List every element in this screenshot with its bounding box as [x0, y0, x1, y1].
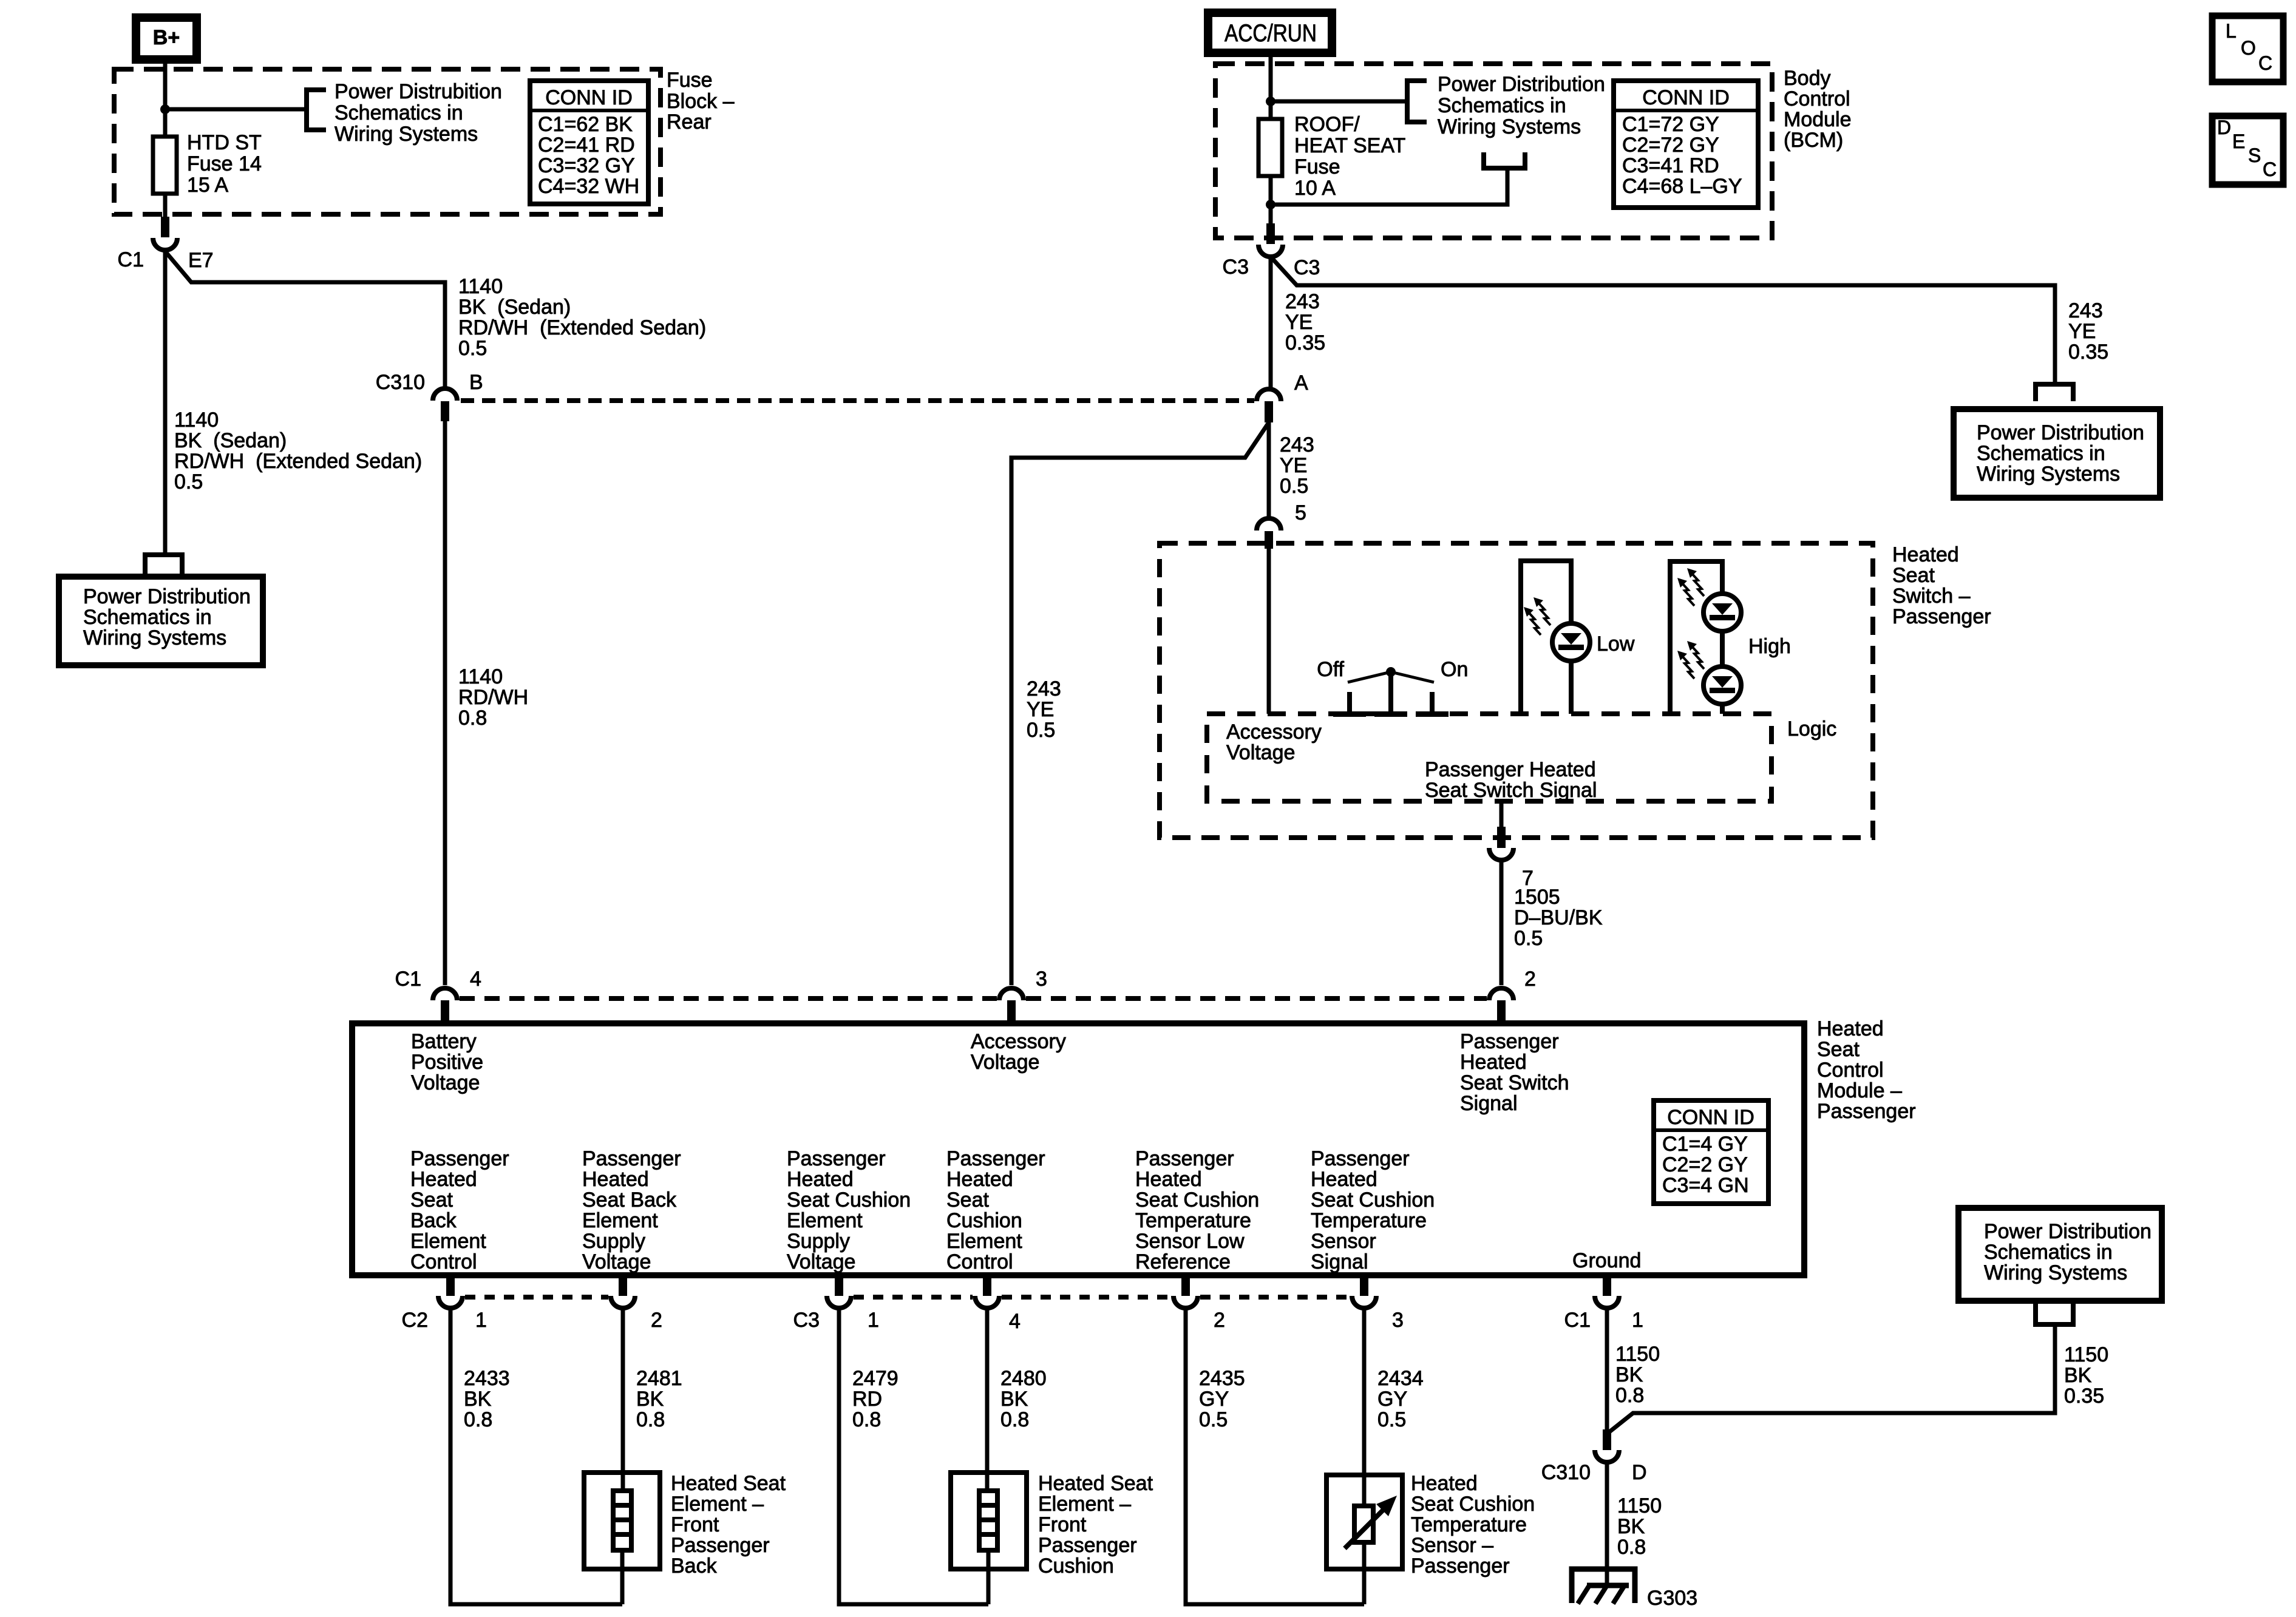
label circuit 243 YE 0.5 branch: [1027, 677, 1061, 742]
wire ACC/RUN to BCM: [1269, 53, 1273, 101]
connector C310 cavity D: [1541, 1429, 1647, 1484]
svg-text:Element: Element: [787, 1209, 863, 1232]
wire E7 branch to C310 B: [165, 251, 445, 387]
svg-text:Element –: Element –: [1038, 1493, 1131, 1516]
label heated seat element back: [671, 1472, 786, 1578]
svg-text:Heated: Heated: [787, 1168, 854, 1191]
label fuse block - rear: [667, 69, 735, 134]
svg-text:Seat Cushion: Seat Cushion: [1411, 1493, 1535, 1516]
labels module bottom pins: [402, 1309, 1643, 1333]
svg-text:0.35: 0.35: [2064, 1385, 2104, 1408]
svg-text:Element: Element: [582, 1209, 658, 1232]
label accessory voltage switch: [1226, 720, 1322, 764]
svg-text:0.8: 0.8: [1000, 1408, 1029, 1431]
svg-text:High: High: [1748, 635, 1791, 658]
svg-text:1140: 1140: [174, 408, 219, 432]
svg-text:Module –: Module –: [1817, 1079, 1902, 1102]
svg-text:0.35: 0.35: [1285, 331, 1325, 354]
svg-text:C3: C3: [1294, 256, 1320, 279]
svg-text:BK: BK: [464, 1388, 492, 1411]
svg-text:Sensor –: Sensor –: [1411, 1534, 1493, 1557]
svg-text:Low: Low: [1597, 632, 1635, 656]
CONN ID table module: [1654, 1100, 1768, 1204]
svg-text:Power Distribution: Power Distribution: [83, 585, 251, 608]
svg-text:Ground: Ground: [1572, 1249, 1641, 1272]
svg-text:Control: Control: [1784, 87, 1850, 110]
svg-text:Passenger: Passenger: [1817, 1100, 1916, 1123]
svg-text:Block –: Block –: [667, 90, 735, 113]
connector pin 3 module top: [999, 968, 1047, 1023]
connector pin 2 module top: [1489, 968, 1536, 1023]
svg-text:Power Distribution: Power Distribution: [1984, 1220, 2152, 1243]
connector C310 cavity B: [376, 371, 483, 421]
svg-text:RD/WH: RD/WH: [458, 686, 528, 709]
off-page bracket right top: [2036, 384, 2073, 401]
connector C1 pin 4 module top: [395, 968, 481, 1023]
svg-text:C2=41 RD: C2=41 RD: [538, 134, 635, 157]
reference box power distribution left: [59, 577, 263, 665]
svg-text:1150: 1150: [2064, 1343, 2108, 1366]
dashed connector line module bottom: [465, 1295, 1350, 1300]
wire to power distribution reference top: [1271, 100, 1407, 104]
svg-text:Fuse: Fuse: [1294, 155, 1340, 178]
svg-text:YE: YE: [2068, 320, 2096, 343]
svg-text:1140: 1140: [458, 275, 503, 298]
svg-text:Sensor: Sensor: [1311, 1230, 1376, 1253]
svg-text:YE: YE: [1280, 454, 1307, 477]
label ground module: [1572, 1249, 1641, 1272]
svg-text:YE: YE: [1027, 698, 1054, 721]
svg-text:Heated: Heated: [946, 1168, 1013, 1191]
svg-text:BK: BK: [2064, 1364, 2092, 1387]
wire C1/E7 down left branch: [163, 251, 168, 555]
svg-text:Battery: Battery: [411, 1030, 477, 1053]
svg-text:C3: C3: [1223, 256, 1249, 279]
heated seat element front passenger back: [584, 1473, 660, 1604]
svg-text:15 A: 15 A: [187, 174, 228, 197]
svg-text:(BCM): (BCM): [1784, 129, 1843, 152]
labels bottom circuits: [464, 1367, 1424, 1431]
svg-text:Passenger: Passenger: [1892, 605, 1991, 628]
svg-text:Control: Control: [1817, 1059, 1884, 1082]
svg-text:2: 2: [1214, 1309, 1225, 1332]
svg-text:Schematics in: Schematics in: [1977, 442, 2105, 465]
svg-text:2479: 2479: [852, 1367, 898, 1390]
svg-text:Voltage: Voltage: [787, 1250, 855, 1273]
svg-text:0.5: 0.5: [174, 470, 203, 493]
svg-text:Heated: Heated: [1311, 1168, 1377, 1191]
svg-text:RD/WH (Extended Sedan): RD/WH (Extended Sedan): [174, 450, 422, 473]
svg-text:Front: Front: [1038, 1513, 1087, 1536]
svg-text:Passenger: Passenger: [946, 1147, 1045, 1170]
svg-text:Seat Back: Seat Back: [582, 1188, 677, 1212]
svg-text:243: 243: [2068, 299, 2103, 322]
svg-text:Back: Back: [410, 1209, 457, 1232]
svg-text:CONN ID: CONN ID: [1667, 1106, 1754, 1129]
svg-text:Body: Body: [1784, 67, 1831, 90]
LOC reference box: [2212, 16, 2283, 82]
svg-text:0.5: 0.5: [1027, 719, 1055, 742]
svg-text:Fuse 14: Fuse 14: [187, 152, 262, 175]
svg-text:G303: G303: [1647, 1587, 1697, 1610]
svg-text:1: 1: [1632, 1309, 1643, 1332]
svg-text:Wiring Systems: Wiring Systems: [1977, 463, 2120, 486]
svg-text:CONN ID: CONN ID: [545, 86, 633, 109]
svg-text:2434: 2434: [1377, 1367, 1424, 1390]
svg-text:C2=2 GY: C2=2 GY: [1662, 1153, 1748, 1176]
wire through fuse ROOF/HEAT SEAT: [1269, 101, 1273, 231]
svg-text:C: C: [2258, 52, 2272, 74]
wire C3 branch to right power distribution: [1271, 257, 2055, 384]
svg-text:C2: C2: [402, 1309, 428, 1332]
svg-text:4: 4: [1009, 1310, 1021, 1333]
svg-text:Heated: Heated: [1411, 1472, 1478, 1495]
fuse block - rear dashed box: [114, 69, 661, 214]
reference box power distribution right top: [1954, 409, 2160, 498]
wire branch A to module pin 3: [1011, 422, 1269, 985]
svg-text:2: 2: [651, 1309, 662, 1332]
label heated seat control module passenger: [1817, 1017, 1916, 1123]
svg-text:0.8: 0.8: [1615, 1384, 1644, 1407]
svg-text:C310: C310: [1541, 1461, 1591, 1484]
svg-text:Module: Module: [1784, 108, 1852, 131]
svg-text:Temperature: Temperature: [1311, 1209, 1427, 1232]
svg-text:243: 243: [1280, 433, 1314, 456]
wire junction to power distribution reference: [165, 107, 307, 112]
svg-text:0.8: 0.8: [852, 1408, 881, 1431]
svg-text:D–BU/BK: D–BU/BK: [1514, 906, 1603, 929]
svg-text:1140: 1140: [458, 665, 503, 688]
svg-text:Passenger: Passenger: [1311, 1147, 1410, 1170]
label circuit 1140 branch: [458, 275, 706, 360]
svg-text:Seat: Seat: [1817, 1038, 1860, 1061]
svg-text:Wiring Systems: Wiring Systems: [1984, 1261, 2127, 1284]
svg-text:1150: 1150: [1615, 1343, 1660, 1366]
svg-text:Rear: Rear: [667, 110, 712, 134]
svg-text:HEAT SEAT: HEAT SEAT: [1294, 134, 1405, 157]
label power distribution reference BCM: [1438, 73, 1605, 138]
svg-text:ACC/RUN: ACC/RUN: [1224, 20, 1317, 47]
svg-text:YE: YE: [1285, 311, 1313, 334]
label circuit 1140 left: [174, 408, 422, 493]
connector C1 pin E7: [118, 217, 214, 272]
svg-text:C3=41 RD: C3=41 RD: [1622, 154, 1719, 177]
wire C310 D to ground: [1605, 1463, 1609, 1585]
svg-text:C3: C3: [793, 1309, 820, 1332]
svg-text:Passenger: Passenger: [582, 1147, 681, 1170]
svg-text:C1=4 GY: C1=4 GY: [1662, 1133, 1748, 1156]
wire C3 pin1 to element cushion low side: [839, 1310, 988, 1604]
svg-text:Temperature: Temperature: [1135, 1209, 1251, 1232]
wire C3 pin3 to sensor: [1362, 1310, 1367, 1506]
svg-text:Element: Element: [410, 1230, 486, 1253]
svg-text:0.8: 0.8: [1617, 1536, 1646, 1559]
heated seat switch dashed box: [1160, 543, 1873, 838]
svg-text:Voltage: Voltage: [1226, 741, 1295, 764]
svg-text:C1=62 BK: C1=62 BK: [538, 113, 633, 136]
module bottom pins C2/C3/C1: [438, 1275, 1619, 1308]
svg-text:BK: BK: [1000, 1388, 1028, 1411]
svg-text:Fuse: Fuse: [667, 69, 713, 92]
svg-text:Switch –: Switch –: [1892, 585, 1971, 608]
svg-text:Seat Switch: Seat Switch: [1460, 1071, 1569, 1094]
svg-text:Positive: Positive: [411, 1051, 483, 1074]
svg-text:2435: 2435: [1199, 1367, 1245, 1390]
label circuit 1150 BK 0.35: [2064, 1343, 2108, 1408]
svg-text:2: 2: [1524, 968, 1536, 991]
label off: [1317, 658, 1344, 681]
wire A to switch pin 5: [1267, 422, 1271, 517]
svg-text:Element –: Element –: [671, 1493, 764, 1516]
power symbol B+: [136, 18, 197, 59]
svg-text:243: 243: [1285, 290, 1320, 313]
label on: [1441, 658, 1468, 681]
connector pin 7 switch: [1489, 827, 1533, 890]
svg-text:Passenger: Passenger: [671, 1534, 770, 1557]
node junction BCM bottom: [1266, 200, 1275, 209]
heated seat cushion temperature sensor: [1326, 1475, 1402, 1604]
wire pin7 to module pin 2: [1500, 861, 1504, 985]
svg-text:ROOF/: ROOF/: [1294, 113, 1360, 136]
svg-text:2480: 2480: [1000, 1367, 1047, 1390]
dashed harness C310: [461, 398, 1254, 403]
heated seat control module box: [352, 1023, 1804, 1275]
svg-text:0.5: 0.5: [458, 337, 487, 360]
wire through fuse HTD ST: [163, 109, 168, 222]
svg-text:C4=32 WH: C4=32 WH: [538, 175, 639, 198]
svg-text:Heated: Heated: [1892, 543, 1959, 566]
svg-text:2481: 2481: [636, 1367, 682, 1390]
fuse ROOF/HEAT SEAT 10 A: [1258, 119, 1282, 176]
node junction BCM top: [1266, 97, 1275, 106]
svg-text:Back: Back: [671, 1554, 718, 1578]
fuse HTD ST Fuse 14 15 A: [153, 137, 177, 194]
svg-text:Power Distribution: Power Distribution: [1977, 421, 2144, 444]
CONN ID table fuse block rear: [530, 81, 648, 204]
DESC reference box: [2212, 116, 2283, 185]
connector pin 5 heated seat switch: [1257, 501, 1306, 549]
svg-text:GY: GY: [1199, 1388, 1229, 1411]
svg-text:C: C: [2263, 158, 2277, 180]
svg-text:Seat: Seat: [410, 1188, 453, 1212]
svg-text:Voltage: Voltage: [411, 1071, 480, 1094]
svg-text:0.5: 0.5: [1514, 927, 1543, 950]
label logic: [1787, 717, 1836, 741]
svg-text:Passenger: Passenger: [1460, 1030, 1559, 1053]
svg-text:Wiring Systems: Wiring Systems: [83, 626, 226, 649]
svg-text:0.8: 0.8: [458, 707, 487, 730]
module bottom row labels: [410, 1147, 1435, 1273]
svg-text:C3=32 GY: C3=32 GY: [538, 154, 635, 177]
svg-text:1: 1: [475, 1309, 487, 1332]
svg-text:C3=4 GN: C3=4 GN: [1662, 1174, 1749, 1197]
svg-text:Sensor Low: Sensor Low: [1135, 1230, 1245, 1253]
reference box power distribution right bottom: [1958, 1208, 2162, 1301]
svg-text:Cushion: Cushion: [1038, 1554, 1114, 1578]
svg-text:BK (Sedan): BK (Sedan): [458, 296, 571, 319]
svg-text:4: 4: [470, 968, 481, 991]
svg-text:C2=72 GY: C2=72 GY: [1622, 134, 1719, 157]
svg-text:Temperature: Temperature: [1411, 1513, 1527, 1536]
wire C310 B to module pin 4: [443, 421, 447, 985]
svg-text:1: 1: [868, 1309, 879, 1332]
svg-text:Heated: Heated: [582, 1168, 649, 1191]
svg-text:Seat Cushion: Seat Cushion: [1135, 1188, 1259, 1212]
switch selector off/on: [1333, 667, 1449, 717]
connector C3 BCM: [1223, 223, 1320, 279]
svg-text:Passenger: Passenger: [410, 1147, 509, 1170]
heated seat element front passenger cushion: [951, 1473, 1027, 1604]
svg-text:1150: 1150: [1617, 1494, 1662, 1517]
svg-text:Logic: Logic: [1787, 717, 1836, 741]
svg-text:Accessory: Accessory: [971, 1030, 1066, 1053]
svg-text:Passenger: Passenger: [1135, 1147, 1234, 1170]
svg-text:3: 3: [1036, 968, 1047, 991]
svg-text:Heated: Heated: [1135, 1168, 1202, 1191]
svg-text:Seat: Seat: [1892, 564, 1935, 587]
svg-text:Supply: Supply: [787, 1230, 850, 1253]
svg-text:Control: Control: [410, 1250, 477, 1273]
bracket under reference text BCM: [1484, 152, 1525, 168]
svg-text:C4=68 L–GY: C4=68 L–GY: [1622, 175, 1742, 198]
wire pin5 into switch: [1267, 549, 1271, 714]
svg-text:On: On: [1441, 658, 1468, 681]
label circuit 1505 D-BU/BK: [1514, 886, 1603, 950]
svg-text:Heated: Heated: [1817, 1017, 1884, 1040]
svg-text:Heated Seat: Heated Seat: [1038, 1472, 1153, 1495]
svg-text:Signal: Signal: [1460, 1092, 1518, 1115]
svg-text:Passenger: Passenger: [1038, 1534, 1137, 1557]
svg-text:Front: Front: [671, 1513, 719, 1536]
svg-text:Seat Cushion: Seat Cushion: [787, 1188, 911, 1212]
svg-text:GY: GY: [1377, 1388, 1407, 1411]
svg-text:Voltage: Voltage: [582, 1250, 651, 1273]
svg-text:BK: BK: [1617, 1515, 1645, 1538]
svg-text:B: B: [469, 371, 483, 394]
node junction at B+ feed: [160, 104, 170, 114]
svg-text:5: 5: [1295, 501, 1306, 524]
svg-text:Seat Switch Signal: Seat Switch Signal: [1425, 779, 1597, 802]
wire C3 pin4 to element cushion: [985, 1310, 990, 1491]
svg-text:Accessory: Accessory: [1226, 720, 1322, 744]
svg-text:C1: C1: [1564, 1309, 1591, 1332]
logic dashed box: [1207, 714, 1771, 801]
svg-text:Power Distrubition: Power Distrubition: [335, 80, 502, 103]
label fuse HTD ST: [187, 131, 262, 197]
svg-text:C1: C1: [395, 968, 421, 991]
label passenger heated seat switch signal: [1425, 758, 1597, 802]
off-page bracket right bottom: [2036, 1303, 2073, 1324]
svg-text:Schematics in: Schematics in: [1984, 1241, 2113, 1264]
svg-text:Heated Seat: Heated Seat: [671, 1472, 786, 1495]
svg-text:RD: RD: [852, 1388, 882, 1411]
label circuit 1140 RD/WH: [458, 665, 528, 730]
svg-text:Seat: Seat: [946, 1188, 989, 1212]
indicator LED low: [1521, 561, 1590, 714]
label circuit 1150 BK 0.8 lower: [1617, 1494, 1662, 1559]
svg-text:0.5: 0.5: [1280, 475, 1308, 498]
wire C3 pin2 to sensor low side: [1186, 1310, 1364, 1604]
label circuit 243 YE 0.35 right: [2068, 299, 2108, 364]
svg-text:2433: 2433: [464, 1367, 510, 1390]
body control module dashed box: [1215, 64, 1772, 238]
svg-text:BK: BK: [636, 1388, 664, 1411]
svg-text:L: L: [2226, 20, 2237, 42]
svg-text:Control: Control: [946, 1250, 1013, 1273]
svg-text:0.5: 0.5: [1199, 1408, 1228, 1431]
label high: [1748, 635, 1791, 658]
svg-text:Supply: Supply: [582, 1230, 645, 1253]
label passenger heated seat switch signal module: [1460, 1030, 1569, 1115]
svg-text:Reference: Reference: [1135, 1250, 1231, 1273]
svg-text:CONN ID: CONN ID: [1642, 86, 1730, 109]
wire fuse output to reference bracket: [1271, 168, 1507, 205]
wire ground C1 pin1: [1605, 1310, 1609, 1434]
wire right reference to ground wire: [1609, 1324, 2055, 1432]
off-page bracket BCM top: [1407, 81, 1427, 122]
svg-text:1505: 1505: [1514, 886, 1560, 909]
svg-text:Heated: Heated: [410, 1168, 477, 1191]
svg-text:0.8: 0.8: [636, 1408, 665, 1431]
svg-text:O: O: [2241, 37, 2256, 59]
svg-text:E: E: [2232, 131, 2245, 152]
label circuit 243 YE 0.35: [1285, 290, 1325, 354]
svg-text:BK: BK: [1615, 1363, 1643, 1386]
svg-text:Power Distribution: Power Distribution: [1438, 73, 1605, 96]
svg-text:B+: B+: [153, 26, 180, 49]
ground symbol G303: [1572, 1569, 1697, 1610]
label circuit 1150 BK 0.8 ground: [1615, 1343, 1660, 1407]
off-page bracket fuse block: [307, 90, 326, 130]
svg-text:Element: Element: [946, 1230, 1022, 1253]
svg-text:C1: C1: [118, 248, 144, 271]
svg-text:Passenger Heated: Passenger Heated: [1425, 758, 1596, 781]
svg-text:Heated: Heated: [1460, 1051, 1527, 1074]
label temperature sensor: [1411, 1472, 1535, 1578]
label body control module: [1784, 67, 1852, 152]
svg-text:S: S: [2248, 144, 2261, 166]
svg-text:Voltage: Voltage: [971, 1051, 1039, 1074]
svg-text:RD/WH (Extended Sedan): RD/WH (Extended Sedan): [458, 316, 706, 339]
svg-text:Wiring Systems: Wiring Systems: [1438, 115, 1581, 138]
svg-text:Cushion: Cushion: [946, 1209, 1022, 1232]
svg-text:HTD ST: HTD ST: [187, 131, 262, 154]
svg-text:D: D: [2217, 117, 2231, 138]
svg-text:Signal: Signal: [1311, 1250, 1368, 1273]
power symbol ACC/RUN: [1208, 13, 1332, 53]
dashed connector line module top: [460, 996, 1487, 1001]
svg-text:0.35: 0.35: [2068, 341, 2108, 364]
connector A inline: [1257, 371, 1308, 422]
svg-text:Schematics in: Schematics in: [83, 606, 212, 629]
label fuse ROOF/HEAT SEAT: [1294, 113, 1405, 200]
svg-text:Off: Off: [1317, 658, 1344, 681]
svg-text:Passenger: Passenger: [1411, 1554, 1510, 1578]
wire C3 to connector A: [1269, 257, 1273, 388]
svg-text:BK (Sedan): BK (Sedan): [174, 429, 287, 452]
svg-text:3: 3: [1392, 1309, 1404, 1332]
wire C2 pin2 to element back: [621, 1310, 625, 1491]
svg-text:C1=72 GY: C1=72 GY: [1622, 113, 1719, 136]
svg-text:Schematics in: Schematics in: [1438, 94, 1566, 117]
label heated seat element cushion: [1038, 1472, 1153, 1578]
svg-text:C310: C310: [376, 371, 425, 394]
label heated seat switch passenger: [1892, 543, 1991, 628]
svg-text:243: 243: [1027, 677, 1061, 700]
svg-text:0.5: 0.5: [1377, 1408, 1406, 1431]
svg-text:Wiring Systems: Wiring Systems: [335, 123, 478, 146]
label battery positive voltage: [411, 1030, 483, 1094]
